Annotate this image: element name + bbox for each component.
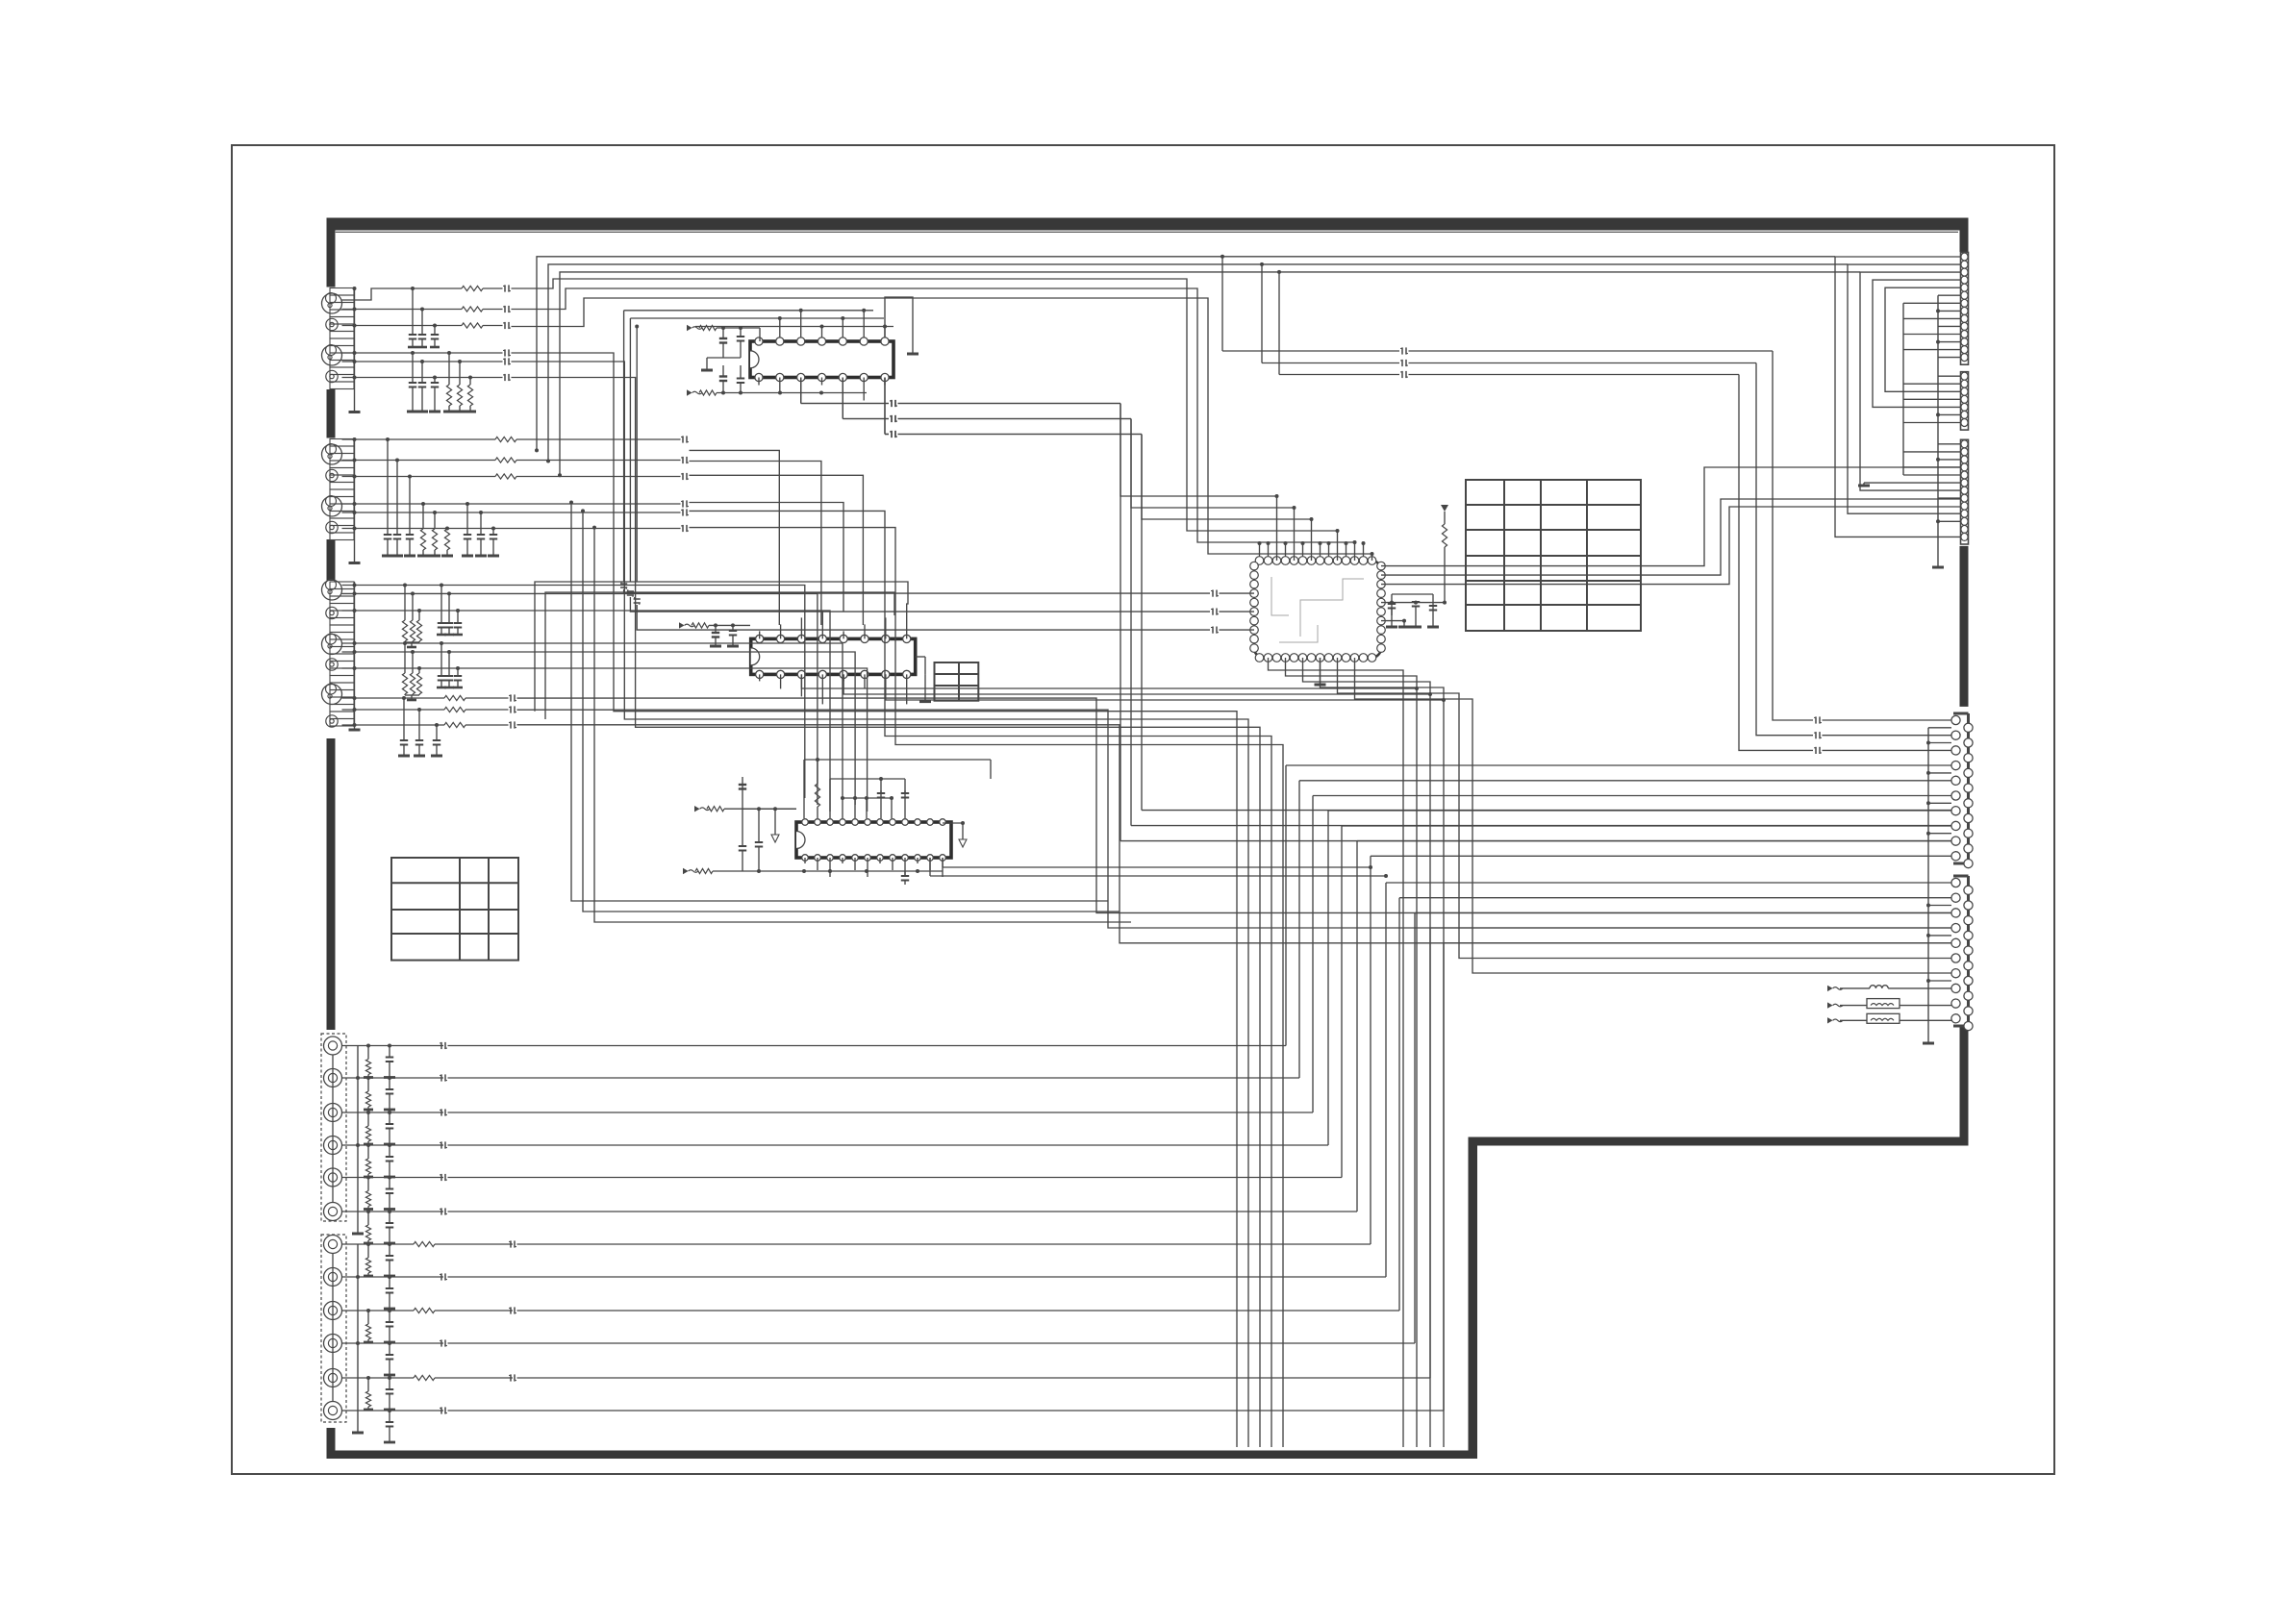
wire J4 row 3 to CN block1 xyxy=(342,1112,444,1113)
wire G2 row1 to U2 xyxy=(690,450,780,625)
wire G3 row8 to CN-B xyxy=(517,710,1952,928)
U4 pins xyxy=(1255,557,1264,565)
wire U1 out 2 xyxy=(842,378,843,419)
connector strip CN2 xyxy=(1961,372,1969,430)
U4 right RC network xyxy=(1381,602,1445,604)
thick frame top bar xyxy=(327,218,1969,231)
wire U1 rail3 to U4 left xyxy=(636,327,638,583)
wire G2 row2 to U2 xyxy=(690,462,821,626)
capacitor cluster C1-C3 xyxy=(412,288,414,335)
inductor L1 into CN-B pin8 xyxy=(1827,986,1833,991)
connector CN-A pins xyxy=(1951,715,1960,724)
wire G2 row2 top route xyxy=(548,264,1848,462)
connector ground rail and stubs xyxy=(1927,728,1929,1043)
strip ground rail xyxy=(1937,295,1939,567)
wire G2 row5 branch down xyxy=(583,511,1120,912)
thick frame notch vertical bar xyxy=(1469,1137,1478,1460)
RCA jack J1d xyxy=(326,370,338,382)
RCA jack J1a xyxy=(322,293,342,313)
connector CN-B pins xyxy=(1951,878,1960,887)
wire U4 top feed 1 xyxy=(1120,404,1277,562)
RCA jack J2a xyxy=(322,444,342,464)
wire U4 top feed 5 xyxy=(512,288,1355,561)
wire video out 1 to CN-A xyxy=(1221,257,1223,351)
thick frame right bar segment 1 xyxy=(1960,231,1969,253)
wire G3 row1 to U3 xyxy=(633,586,805,799)
page border frame xyxy=(232,145,2054,1474)
wire U4 to CN-B pin7 xyxy=(1355,658,1952,973)
wire U1 rail2 to U4 left xyxy=(629,318,631,582)
RCA jack J3b xyxy=(326,607,338,618)
strip area ground xyxy=(1863,483,1865,486)
U3 out arrow xyxy=(962,823,964,839)
wire G2 row4 to U2 xyxy=(690,503,844,612)
U3 bottom rail xyxy=(804,870,943,872)
connector strip CN1 xyxy=(1961,253,1969,365)
ground rail J2 xyxy=(354,439,356,563)
IC U3 body xyxy=(796,822,951,858)
resistors and beads G2 xyxy=(342,438,496,440)
IC U1 body xyxy=(750,341,893,378)
U1 input network xyxy=(687,325,692,331)
wire J4 row 5 to CN block1 xyxy=(342,1177,444,1179)
RCA jack J1b xyxy=(326,318,338,330)
wire video out 3 to CN-A xyxy=(1278,272,1280,375)
wire G2 row6 bus xyxy=(690,528,1284,1447)
resistors/beads G3 rows7-9 xyxy=(342,585,633,587)
wire U4 top feed 6 xyxy=(512,298,1372,561)
IC U2 pins xyxy=(756,635,764,642)
RCA jacks J4 xyxy=(324,1037,342,1055)
RC cluster G3 rows1-3 xyxy=(403,584,407,587)
wire G2 row4 branch down xyxy=(571,503,1108,902)
thick frame right bar segment 2 xyxy=(1960,546,1969,707)
wire U4 right to strip C 3 xyxy=(1381,507,1960,585)
U3 bottom stubs xyxy=(804,858,806,863)
thick frame left bar bottom stub xyxy=(327,1428,336,1459)
RCA jack J3f xyxy=(326,715,338,727)
wire G2 row3 top route xyxy=(560,272,1860,475)
table T2 (3x4 grid) xyxy=(391,858,518,961)
wire U2 out 2 xyxy=(843,674,1430,694)
wire G2 row1 top route xyxy=(537,257,1835,451)
wire G3 row5 to U3 xyxy=(633,652,856,805)
wire G3 row7 to CN-B xyxy=(517,698,1952,912)
wire G3 row9 to CN-B xyxy=(517,725,1952,943)
U4 inner detail xyxy=(1271,577,1289,615)
strip interconnect wire xyxy=(1860,272,1960,490)
wire J5 row 6 to CN block2 xyxy=(342,1410,444,1412)
jack chain J5 xyxy=(332,1254,334,1402)
RCA jacks J5 xyxy=(324,1236,342,1254)
jack chain J4 xyxy=(332,1055,334,1203)
ground rail J4 xyxy=(357,1046,359,1235)
U3 top components xyxy=(815,784,819,807)
wire U4 bottom out 4 xyxy=(1321,658,1445,1447)
thick frame left bar segment 1 xyxy=(327,218,336,287)
wire U4 top feed 3 xyxy=(1142,435,1312,562)
wire U2 out 1 xyxy=(801,674,1417,688)
U4 bottom ground xyxy=(1320,658,1321,685)
IC U1 pins xyxy=(755,337,763,345)
wire G1 row5 bus xyxy=(512,362,1249,1447)
beads FB4-FB6 xyxy=(342,352,503,354)
RCA jack J2b xyxy=(326,469,338,481)
wire video out 2 to CN-A xyxy=(1261,264,1263,363)
thick frame bottom bar xyxy=(327,1451,1477,1460)
wire U4 right to strip C xyxy=(1381,467,1960,566)
thick frame left bar segment 4 xyxy=(327,738,336,1030)
IC U2 body xyxy=(751,638,916,674)
wire U4 top feed 2 xyxy=(1131,419,1295,562)
wire J4 row 2 to CN block1 xyxy=(342,1077,444,1079)
thick frame right bar segment 3 xyxy=(1960,1027,1969,1146)
strip interconnect wire xyxy=(1873,280,1960,407)
thick frame left bar segment 2 xyxy=(327,389,336,438)
thin inner line under top bar xyxy=(336,231,1958,233)
wire U1 rail1 to U4 left xyxy=(623,311,625,582)
IC U4 body xyxy=(1254,561,1381,658)
capacitor/resistor clusters under G2 xyxy=(386,437,390,441)
wire U1 out 3 xyxy=(884,378,886,435)
wire U1 out 3 xyxy=(884,378,886,435)
dotted connector box J5 xyxy=(321,1235,346,1422)
U3 left network xyxy=(694,806,700,812)
wire G3 row3 to U3 xyxy=(633,611,831,812)
RCA jack J1c xyxy=(322,345,342,365)
U1 top rails xyxy=(759,328,761,341)
cap cluster G3 rows7-9 xyxy=(402,696,406,700)
wire J5 row 5 to CN block2 xyxy=(342,1377,415,1379)
RC networks under J4 rows xyxy=(366,1044,370,1048)
wire G2 row6 branch down xyxy=(594,528,1131,922)
wire U4 to CN-B pin6 xyxy=(1338,658,1952,959)
strip interconnect wire xyxy=(1835,257,1960,537)
filter FL1 into CN-B xyxy=(1827,1002,1833,1008)
connector strip CN3 xyxy=(1961,439,1969,544)
wire J4 row 4 to CN block1 xyxy=(342,1144,444,1146)
RCA jack J2d xyxy=(326,521,338,533)
connector J3 pin strip xyxy=(330,582,354,589)
ground rail J3 xyxy=(354,582,356,730)
filter FL2 into CN-B xyxy=(1827,1017,1833,1023)
wire U2 out 3 xyxy=(886,674,1444,700)
wire U4 bottom out 2 xyxy=(1286,658,1418,1447)
wire G3 row2 to U3 xyxy=(633,593,818,805)
resistors R1-R3 and beads FB1-FB3 xyxy=(342,288,463,300)
RCA jack J3e xyxy=(322,685,342,705)
wire G2 row3 to U2 xyxy=(690,475,864,625)
U2 ground xyxy=(924,674,926,701)
wire G2 row5 bus xyxy=(690,511,1272,1447)
wire J4 row 6 to CN block1 xyxy=(342,1211,444,1212)
wire G3 row4 to U3 xyxy=(633,643,843,798)
U2 pin stubs xyxy=(759,631,761,638)
wire U1 out 2 xyxy=(842,378,843,419)
RCA jack J2c xyxy=(322,496,342,516)
wire U4 right to strip C 2 xyxy=(1381,499,1960,575)
junctions at jack rail xyxy=(353,437,357,441)
junctions at jack rail xyxy=(353,287,357,290)
ground rail J5 xyxy=(357,1244,359,1433)
dotted connector box J4 xyxy=(321,1034,346,1221)
wire U1 out 1 xyxy=(800,378,802,404)
connector J1 pin strip xyxy=(330,288,354,296)
wire G1 row4 bus xyxy=(512,353,1238,1447)
U2 input network xyxy=(679,622,685,628)
strip interconnect wire xyxy=(1848,264,1960,513)
wire J5 row 3 to CN block2 xyxy=(342,1310,415,1312)
table T1 (4x6 grid) xyxy=(1466,480,1641,631)
junctions at jack rail xyxy=(353,584,357,587)
strip interconnect wire xyxy=(1885,287,1960,391)
U4 top stubs xyxy=(1259,543,1261,557)
capacitor/resistor cluster under G1 rows 4-6 xyxy=(412,353,414,383)
wire J5 row 1 to CN block2 xyxy=(342,1243,415,1245)
wire U4 top feed 4 xyxy=(512,279,1338,561)
RC networks under J5 rows xyxy=(366,1242,370,1246)
routing frame U2 b xyxy=(545,592,894,719)
wire U4 bottom out 1 xyxy=(1269,658,1404,1447)
wire U1 out 1 xyxy=(800,378,802,404)
wire J5 row 4 to CN block2 xyxy=(342,1342,444,1344)
wire U4 bottom out 3 xyxy=(1303,658,1431,1447)
table T3 (2x3 grid) xyxy=(935,662,979,701)
RC cluster G3 rows4-6 xyxy=(403,641,407,645)
wire G1 row6 bus xyxy=(512,378,1261,1448)
wire J4 row 1 to CN block1 xyxy=(342,1045,444,1047)
strip feed stubs xyxy=(1902,303,1904,475)
connector J2 pin strip xyxy=(330,439,354,447)
U3 bottom outs xyxy=(942,858,944,867)
thick frame left bar segment 3 xyxy=(327,539,336,581)
connector CN-A frame xyxy=(1967,713,1970,863)
RCA jack J3c xyxy=(322,635,342,655)
RCA jack J3d xyxy=(326,659,338,670)
IC U3 pins xyxy=(802,819,809,826)
U3 top rails xyxy=(804,759,991,761)
thick frame notch horizontal bar xyxy=(1469,1137,1969,1146)
ground rail J1 xyxy=(354,288,356,412)
connector CN-B frame xyxy=(1967,876,1970,1026)
U1 vcc stub xyxy=(885,297,913,354)
U1 bottom stubs xyxy=(758,378,760,386)
wire G3 row6 to U3 xyxy=(633,668,868,812)
wire J5 row 2 to CN block2 xyxy=(342,1276,444,1278)
RCA jack J3a xyxy=(322,580,342,600)
routing frame U2 a xyxy=(535,582,908,712)
